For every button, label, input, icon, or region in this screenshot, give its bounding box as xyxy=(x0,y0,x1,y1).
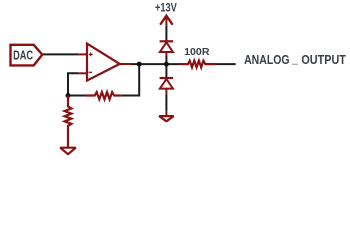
svg-text:100R: 100R xyxy=(184,47,210,58)
svg-text:ANALOG: ANALOG xyxy=(244,52,290,67)
svg-text:OUTPUT: OUTPUT xyxy=(301,52,346,67)
svg-text:+13V: +13V xyxy=(155,2,177,15)
svg-text:DAC: DAC xyxy=(13,48,33,63)
